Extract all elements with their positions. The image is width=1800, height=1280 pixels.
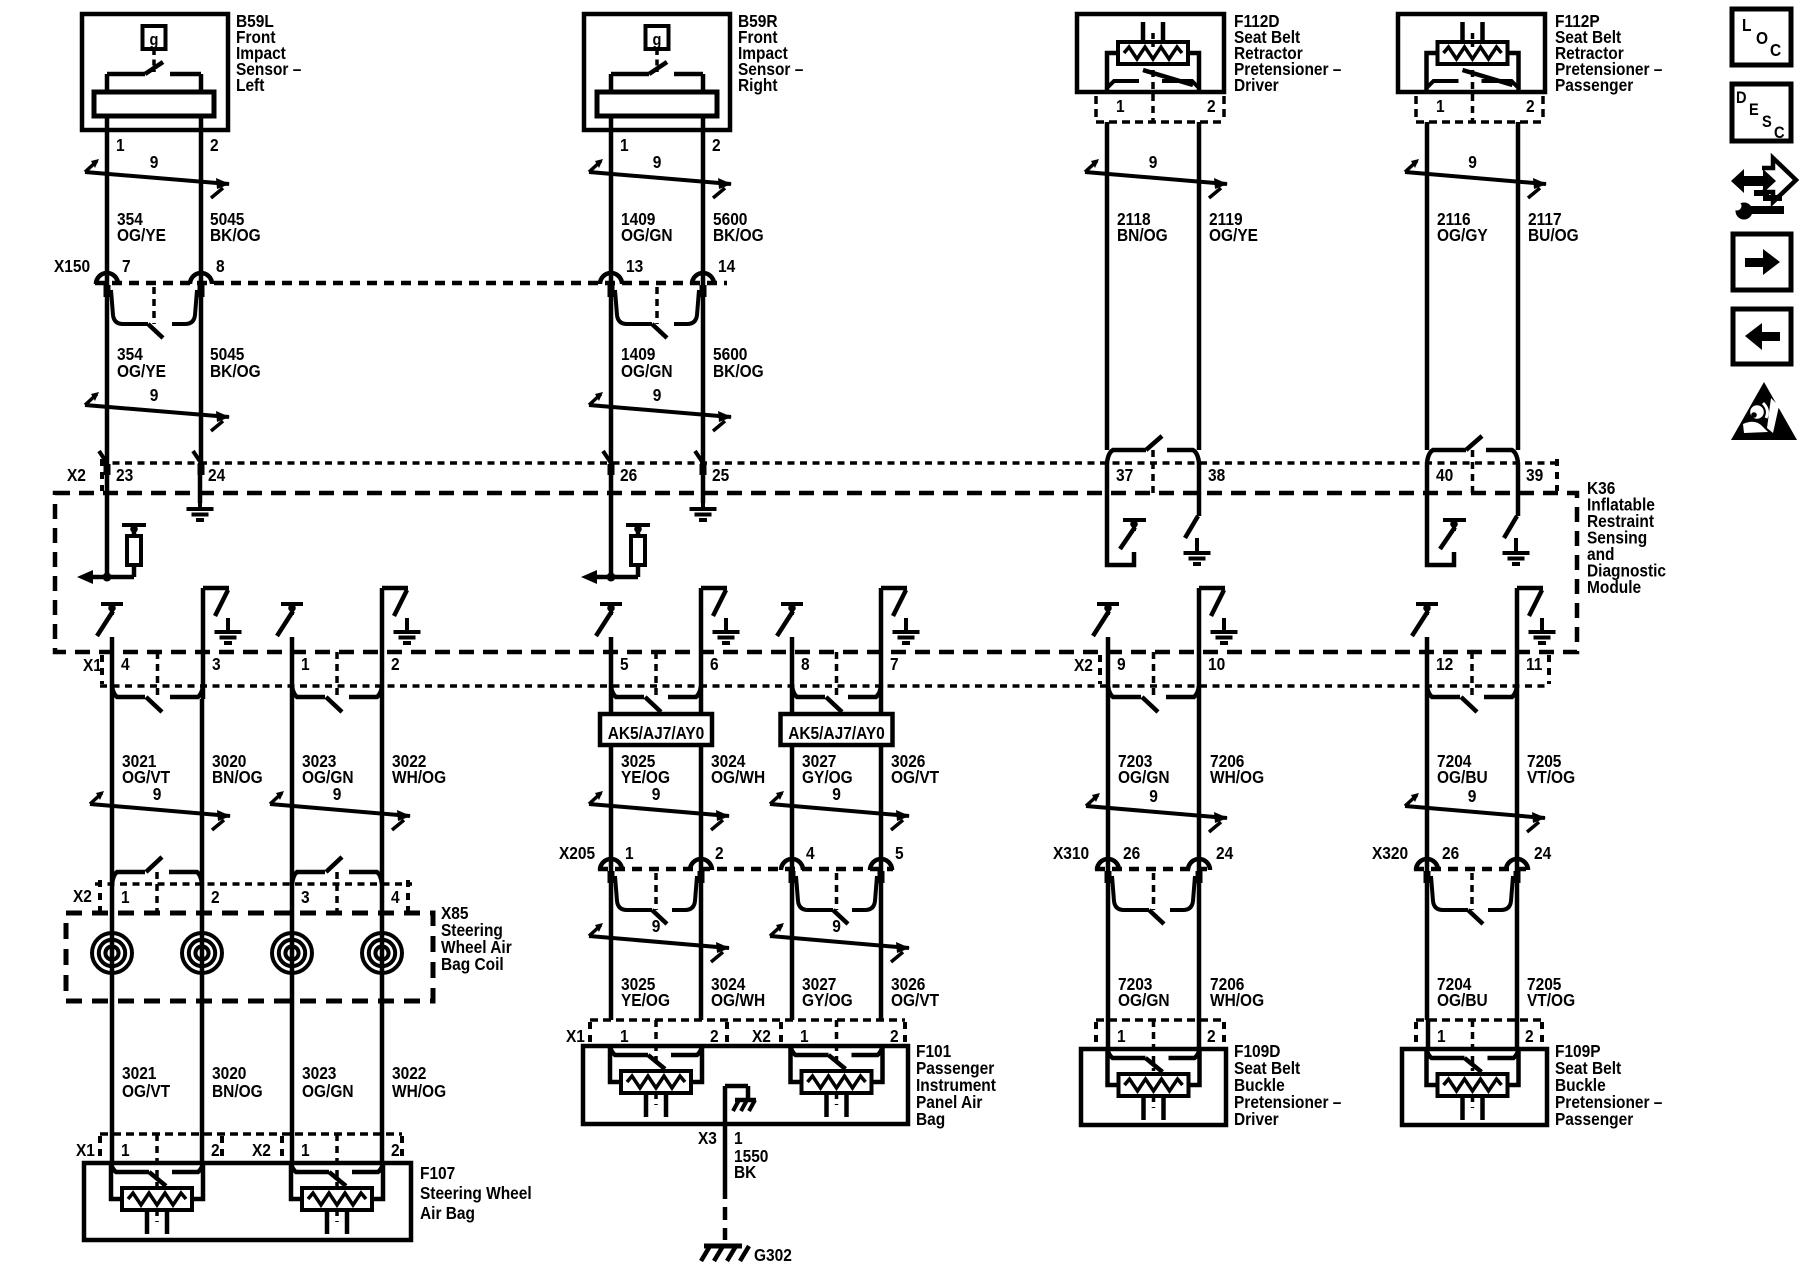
- svg-text:9: 9: [653, 385, 662, 405]
- module pin 6 label: [710, 654, 719, 674]
- X2 terminal stub x=107: [104, 464, 111, 475]
- svg-text:BN/OG: BN/OG: [212, 1081, 263, 1101]
- svg-text:24: 24: [208, 465, 226, 485]
- wire gauge 9 (3027/3026): [770, 784, 910, 830]
- X320 pin 26: [1416, 843, 1459, 883]
- wire label 2117 BU/OG: [1528, 209, 1579, 245]
- svg-text:8: 8: [801, 654, 810, 674]
- svg-text:OG/GN: OG/GN: [621, 225, 673, 245]
- svg-text:WH/OG: WH/OG: [1210, 990, 1264, 1010]
- svg-text:X2: X2: [1074, 655, 1093, 675]
- wire label 5045 BK/OG: [210, 209, 261, 245]
- air bag F107 box: [84, 1163, 411, 1240]
- svg-text:4: 4: [121, 654, 130, 674]
- F109P connector row: [1416, 1020, 1542, 1071]
- connector X150 pin 8: [190, 256, 225, 297]
- module pin 8 label: [801, 654, 810, 674]
- X205 pin 1: [600, 843, 634, 883]
- svg-text:BK/OG: BK/OG: [210, 361, 261, 381]
- svg-text:WH/OG: WH/OG: [1210, 767, 1264, 787]
- svg-text:BN/OG: BN/OG: [1117, 225, 1168, 245]
- svg-text:2: 2: [1525, 1026, 1534, 1046]
- svg-text:26: 26: [620, 465, 637, 485]
- svg-text:OG/WH: OG/WH: [711, 767, 765, 787]
- svg-text:37: 37: [1116, 465, 1133, 485]
- svg-text:AK5/AJ7/AY0: AK5/AJ7/AY0: [788, 723, 885, 743]
- wire label 3021 OG/VT (module out): [122, 751, 171, 787]
- module bottom terminals x=792: [792, 652, 881, 712]
- wire 354 OG/YE seg2: [105, 283, 110, 463]
- F112P output switch (pins 40/39): [1427, 436, 1518, 493]
- wire label 7205 VT/OG (module out): [1527, 751, 1575, 787]
- icon DESC: [1732, 84, 1791, 142]
- svg-text:1: 1: [301, 1140, 310, 1160]
- K36 firing circuit x=1427: [1412, 588, 1556, 652]
- wire 2119 OG/YE: [1197, 122, 1202, 450]
- wire 1409 OG/GN seg2: [609, 283, 614, 463]
- K36 ground return (pin 39): [1503, 463, 1530, 564]
- wire label 7204 OG/BU (at F109): [1437, 974, 1488, 1010]
- svg-text:9: 9: [652, 916, 661, 936]
- svg-text:8: 8: [216, 256, 225, 276]
- F109D squib: [1108, 1049, 1200, 1120]
- svg-text:4: 4: [391, 887, 400, 907]
- X310 terminals: [1112, 873, 1195, 924]
- F112P squib: [1427, 22, 1519, 92]
- X2 terminal stub x=703: [700, 464, 707, 475]
- svg-text:12: 12: [1436, 654, 1453, 674]
- wire gauge 9 (B59R pair): [589, 152, 732, 198]
- K36 sense resistor + arrow (pin 26): [581, 463, 650, 584]
- module bottom terminals x=1108: [1108, 652, 1199, 712]
- X2 pin 38 label: [1208, 465, 1225, 485]
- connector X2 label (top): [67, 459, 1557, 491]
- F101 squib 1: [610, 1046, 702, 1117]
- svg-text:GY/OG: GY/OG: [802, 990, 853, 1010]
- wire gauge 9 (3027/3026 lower): [770, 916, 910, 962]
- module pin 11 label: [1526, 654, 1542, 674]
- svg-text:BK/OG: BK/OG: [713, 361, 764, 381]
- air bag coil 2: [182, 884, 222, 1134]
- K36 sense resistor + arrow (pin 23): [77, 463, 146, 584]
- seat belt retractor pretensioner F112D: [1077, 14, 1224, 92]
- wire label 3027 GY/OG (at F101): [802, 974, 853, 1010]
- wire label 7203 OG/GN (at F109): [1118, 974, 1170, 1010]
- X2 pin 40 label: [1436, 465, 1453, 485]
- connector X2 (coil) label: [73, 880, 408, 911]
- svg-text:GY/OG: GY/OG: [802, 767, 853, 787]
- connector X150 pin 13: [600, 256, 643, 297]
- wire label 1409 OG/GN: [621, 209, 673, 245]
- svg-text:OG/YE: OG/YE: [117, 361, 166, 381]
- svg-text:1: 1: [116, 135, 125, 155]
- svg-text:Left: Left: [236, 75, 265, 95]
- wire 3022 WH/OG seg1: [380, 699, 385, 884]
- wire 3027 GY/OG seg1: [790, 699, 795, 869]
- wire 1550 BK dashed segment: [723, 1186, 728, 1240]
- X150 terminals right pair: [615, 287, 699, 338]
- K36 firing circuit x=792: [777, 588, 920, 652]
- svg-text:24: 24: [1534, 843, 1552, 863]
- wire 7204 OG/BU seg1: [1425, 699, 1430, 869]
- svg-text:X205: X205: [559, 843, 595, 863]
- svg-text:1: 1: [1437, 1026, 1446, 1046]
- svg-text:2: 2: [211, 1140, 220, 1160]
- K36 firing circuit x=112: [97, 588, 242, 652]
- wire 7205 VT/OG seg1: [1515, 699, 1520, 869]
- X205 pin 2: [690, 843, 724, 883]
- wire 2118 BN/OG: [1105, 122, 1110, 450]
- svg-text:3: 3: [301, 887, 310, 907]
- svg-text:9: 9: [653, 152, 662, 172]
- svg-text:OG/GN: OG/GN: [302, 767, 354, 787]
- svg-text:14: 14: [718, 256, 736, 276]
- F101 internal ground: [725, 1086, 756, 1124]
- svg-text:BK/OG: BK/OG: [210, 225, 261, 245]
- wire 1550 BK: [725, 1124, 768, 1186]
- X205 pin 5: [870, 843, 904, 883]
- svg-text:5: 5: [895, 843, 904, 863]
- svg-text:9: 9: [150, 385, 159, 405]
- svg-text:9: 9: [153, 784, 162, 804]
- wire label 3022 WH/OG (module out): [392, 751, 446, 787]
- F112D squib: [1107, 22, 1199, 92]
- X2 coil pin 4: [391, 887, 400, 907]
- B59L internal g-switch: [94, 26, 214, 130]
- F112D label: [1234, 11, 1341, 95]
- svg-text:6: 6: [710, 654, 719, 674]
- X2 coil terminals pair 2: [292, 857, 382, 911]
- seat belt retractor pretensioner F112P: [1398, 14, 1545, 92]
- wire label 3023 OG/GN (module out): [302, 751, 354, 787]
- F112D output switch (pins 37/38): [1107, 436, 1199, 493]
- K36 ground (pin 24): [187, 463, 214, 520]
- svg-text:2: 2: [890, 1026, 899, 1046]
- F107 label: [420, 1163, 532, 1223]
- svg-text:38: 38: [1208, 465, 1225, 485]
- wire gauge 9 (B59L pair): [85, 152, 230, 198]
- svg-text:2: 2: [715, 843, 724, 863]
- K36 firing circuit x=611: [596, 588, 740, 652]
- wire gauge 9 (3025/3024 lower): [589, 916, 730, 962]
- icon arrow left: [1733, 309, 1791, 364]
- connector X150 pin 14: [692, 256, 736, 297]
- module pin 3 label: [212, 654, 221, 674]
- wire 3024 OG/WH seg2: [699, 869, 704, 1020]
- svg-text:O: O: [1756, 28, 1768, 48]
- svg-text:WH/OG: WH/OG: [392, 1081, 446, 1101]
- svg-text:VT/OG: VT/OG: [1527, 990, 1575, 1010]
- X2 coil pin 2: [211, 887, 220, 907]
- svg-text:9: 9: [832, 784, 841, 804]
- air bag coil 3: [272, 884, 312, 1134]
- coil module X85 box: [66, 913, 433, 1001]
- wire label 3025 YE/OG (module out): [621, 751, 670, 787]
- svg-text:X2: X2: [752, 1026, 771, 1046]
- icon adjust (arrows + wrench): [1731, 158, 1796, 220]
- svg-text:7: 7: [122, 256, 131, 276]
- wire gauge 9 (B59R pair lower): [589, 385, 732, 431]
- svg-text:Passenger: Passenger: [1555, 75, 1634, 95]
- B59R pin labels: [620, 135, 721, 155]
- F107 wires into box: [112, 1134, 382, 1163]
- wire label 7206 WH/OG (module out): [1210, 751, 1264, 787]
- wire 1409 OG/GN seg1: [609, 130, 614, 283]
- module pin 12 label: [1436, 654, 1453, 674]
- F107 connector row: [76, 1134, 402, 1186]
- svg-text:YE/OG: YE/OG: [621, 767, 670, 787]
- connector X2 line (module top): [100, 461, 1560, 465]
- wire label 3021 OG/VT (coil out): [122, 1063, 171, 1101]
- svg-text:9: 9: [1117, 654, 1126, 674]
- wire 3027 GY/OG seg2: [790, 869, 795, 1020]
- air bag coil 1: [92, 884, 132, 1134]
- X150 terminals left pair: [111, 287, 197, 338]
- svg-text:5: 5: [620, 654, 629, 674]
- K36 firing circuit x=1108: [1093, 588, 1238, 652]
- module bottom terminals x=292: [292, 652, 382, 712]
- module bottom terminals x=611: [611, 652, 701, 712]
- connector X205 label: [559, 843, 595, 863]
- F112P label: [1555, 11, 1662, 95]
- wire label 5600 BK/OG: [713, 209, 764, 245]
- svg-text:1: 1: [620, 135, 629, 155]
- svg-text:23: 23: [116, 465, 133, 485]
- svg-text:Right: Right: [738, 75, 778, 95]
- K36 ground return (pin 38): [1184, 463, 1211, 564]
- svg-text:9: 9: [150, 152, 159, 172]
- svg-text:9: 9: [333, 784, 342, 804]
- svg-text:1: 1: [121, 1140, 130, 1160]
- icon LOC: [1732, 9, 1791, 65]
- wire label 7204 OG/BU (module out): [1437, 751, 1488, 787]
- svg-text:C: C: [1770, 40, 1781, 60]
- connector X320 label: [1372, 843, 1408, 863]
- svg-text:1: 1: [625, 843, 634, 863]
- K36 ground (pin 25): [690, 463, 717, 520]
- F112D connector pins 1-2: [1096, 70, 1224, 122]
- wire label 7205 VT/OG (at F109): [1527, 974, 1575, 1010]
- svg-text:S: S: [1762, 113, 1772, 131]
- connector X1 label: [83, 655, 102, 684]
- X320 pin 24: [1506, 843, 1552, 883]
- X320 terminals: [1431, 873, 1513, 924]
- wire label 2118 BN/OG: [1117, 209, 1168, 245]
- F109P wires into box: [1428, 1020, 1517, 1049]
- connector X150 pin 7: [96, 256, 131, 297]
- wire gauge 9 (F112P pair): [1405, 152, 1547, 198]
- X2 pin 37 label: [1116, 465, 1133, 485]
- svg-text:OG/VT: OG/VT: [122, 1081, 171, 1101]
- svg-text:9: 9: [1149, 152, 1158, 172]
- wire 7206 WH/OG seg2: [1197, 869, 1202, 1020]
- svg-text:G302: G302: [754, 1245, 792, 1265]
- svg-text:40: 40: [1436, 465, 1453, 485]
- X2 terminal stub x=611: [608, 464, 615, 475]
- wire label 3022 WH/OG (coil out): [392, 1063, 446, 1101]
- svg-text:C: C: [1774, 124, 1785, 142]
- svg-text:X2: X2: [73, 886, 92, 906]
- svg-text:3: 3: [212, 654, 221, 674]
- module K36 label: [1587, 478, 1666, 597]
- svg-text:2: 2: [210, 135, 219, 155]
- svg-text:1: 1: [121, 887, 130, 907]
- wire gauge 9 (3023/3022): [270, 784, 411, 830]
- svg-text:2: 2: [211, 887, 220, 907]
- wire gauge 9 (3025/3024): [589, 784, 730, 830]
- svg-text:1: 1: [1117, 1026, 1126, 1046]
- X2 coil pin 3: [301, 887, 310, 907]
- F101 connector row: [566, 1020, 905, 1068]
- option code box AK5/AJ7/AY0 x=656: [600, 714, 712, 745]
- front impact sensor B59L: [82, 14, 228, 130]
- seat belt buckle pretensioner F109D: [1081, 1049, 1226, 1125]
- svg-text:9: 9: [652, 784, 661, 804]
- ground G302: [701, 1245, 792, 1265]
- svg-text:OG/GN: OG/GN: [621, 361, 673, 381]
- wire label 3027 GY/OG (module out): [802, 751, 853, 787]
- K36 squib driver (pin 40): [1427, 463, 1466, 565]
- wire gauge 9 (B59L pair lower): [85, 385, 230, 431]
- X205 terminals pair 2: [796, 873, 877, 924]
- connector X150 label: [54, 256, 90, 276]
- wire 5045 BK/OG seg2: [199, 283, 204, 463]
- X2 coil pin 1: [121, 887, 130, 907]
- svg-text:2: 2: [391, 654, 400, 674]
- svg-text:X1: X1: [83, 655, 102, 675]
- svg-text:1: 1: [620, 1026, 629, 1046]
- svg-text:OG/BU: OG/BU: [1437, 990, 1488, 1010]
- svg-text:Driver: Driver: [1234, 75, 1279, 95]
- connector X1 line (module bottom): [100, 684, 1549, 688]
- wire 2116 OG/GY: [1425, 122, 1430, 450]
- wire gauge 9 (7204/7205): [1405, 786, 1546, 832]
- svg-text:9: 9: [832, 916, 841, 936]
- svg-text:OG/GN: OG/GN: [1118, 767, 1170, 787]
- module pin 5 label: [620, 654, 629, 674]
- F109D connector row: [1096, 1020, 1224, 1071]
- svg-text:YE/OG: YE/OG: [621, 990, 670, 1010]
- B59L label: [236, 11, 301, 95]
- svg-text:2: 2: [1207, 1026, 1216, 1046]
- wire label 3025 YE/OG (at F101): [621, 974, 670, 1010]
- svg-text:2: 2: [391, 1140, 400, 1160]
- svg-text:1: 1: [1436, 96, 1445, 116]
- wire 354 OG/YE seg1: [105, 130, 110, 283]
- svg-text:4: 4: [806, 843, 815, 863]
- svg-text:AK5/AJ7/AY0: AK5/AJ7/AY0: [608, 723, 705, 743]
- svg-text:g: g: [150, 31, 159, 49]
- connector X150 line: [95, 281, 727, 286]
- option code box AK5/AJ7/AY0 x=836.5: [781, 714, 893, 745]
- module pin 7 label: [890, 654, 899, 674]
- svg-text:X310: X310: [1053, 843, 1089, 863]
- wire 2117 BU/OG: [1516, 122, 1521, 450]
- svg-text:OG/VT: OG/VT: [891, 990, 940, 1010]
- K36 squib driver (pin 37): [1107, 463, 1146, 565]
- svg-text:26: 26: [1442, 843, 1459, 863]
- wire 7206 WH/OG seg1: [1197, 699, 1202, 869]
- svg-text:2: 2: [710, 1026, 719, 1046]
- svg-text:24: 24: [1216, 843, 1234, 863]
- wire 3023 OG/GN seg1: [290, 699, 295, 884]
- svg-text:39: 39: [1526, 465, 1543, 485]
- svg-text:WH/OG: WH/OG: [392, 767, 446, 787]
- svg-text:Passenger: Passenger: [1555, 1109, 1634, 1129]
- X85 label: [441, 903, 512, 974]
- svg-text:13: 13: [626, 256, 643, 276]
- svg-text:VT/OG: VT/OG: [1527, 767, 1575, 787]
- F107 squib 2: [291, 1163, 383, 1234]
- wire 5600 BK/OG seg2: [701, 283, 706, 463]
- connector X320 line: [1414, 867, 1530, 872]
- F109P squib: [1427, 1049, 1519, 1120]
- svg-text:Bag Coil: Bag Coil: [441, 954, 504, 974]
- svg-text:2: 2: [1526, 96, 1535, 116]
- svg-text:D: D: [1736, 89, 1747, 107]
- wire label 354 OG/YE (lower): [117, 344, 166, 381]
- wire label 3024 OG/WH (module out): [711, 751, 765, 787]
- svg-text:X3: X3: [698, 1128, 717, 1148]
- B59R internal g-switch: [597, 26, 717, 130]
- wire 3025 YE/OG seg1: [609, 699, 614, 869]
- air bag F101 box: [583, 1046, 908, 1124]
- wire 3025 YE/OG seg2: [609, 869, 614, 1020]
- wire label 354 OG/YE: [117, 209, 166, 245]
- F112P connector pins 1-2: [1416, 70, 1543, 122]
- svg-text:10: 10: [1208, 654, 1225, 674]
- X310 pin 26: [1097, 843, 1140, 883]
- X2 pin 39 label: [1526, 465, 1543, 485]
- F109P label: [1555, 1041, 1662, 1129]
- svg-text:25: 25: [712, 465, 729, 485]
- module K36 box: [55, 493, 1577, 652]
- connector X310 line: [1095, 867, 1212, 872]
- svg-text:F107: F107: [420, 1163, 455, 1183]
- wire label 3024 OG/WH (at F101): [711, 974, 765, 1010]
- seat belt buckle pretensioner F109P: [1402, 1049, 1547, 1125]
- wire 7204 OG/BU seg2: [1425, 869, 1430, 1020]
- module bottom terminals x=1427: [1427, 652, 1517, 712]
- wire label 3020 BN/OG (coil out): [212, 1063, 263, 1101]
- wire 3024 OG/WH seg1: [699, 699, 704, 869]
- wire label 2119 OG/YE: [1209, 209, 1258, 245]
- svg-text:1: 1: [800, 1026, 809, 1046]
- svg-text:X150: X150: [54, 256, 90, 276]
- svg-text:7: 7: [890, 654, 899, 674]
- svg-text:Driver: Driver: [1234, 1109, 1279, 1129]
- wire 5045 BK/OG seg1: [199, 130, 204, 283]
- wire label 3020 BN/OG (module out): [212, 751, 263, 787]
- front impact sensor B59R: [584, 14, 730, 130]
- F101 label: [916, 1041, 996, 1129]
- connector X2 label (module bottom right): [1074, 655, 1549, 684]
- wire label 5045 BK/OG (lower): [210, 344, 261, 381]
- wire label 3026 OG/VT (at F101): [891, 974, 940, 1010]
- wire 5600 BK/OG seg1: [701, 130, 706, 283]
- svg-text:1: 1: [301, 654, 310, 674]
- wire label 3026 OG/VT (module out): [891, 751, 940, 787]
- wire label 1409 OG/GN (lower): [621, 344, 673, 381]
- svg-text:1: 1: [1116, 96, 1125, 116]
- wire gauge 9 (3021/3020): [90, 784, 231, 830]
- svg-text:OG/WH: OG/WH: [711, 990, 765, 1010]
- svg-text:11: 11: [1526, 654, 1542, 674]
- svg-text:L: L: [1742, 15, 1751, 35]
- wire 3021 OG/VT seg1: [110, 699, 115, 884]
- svg-text:X1: X1: [566, 1026, 585, 1046]
- wire 7203 OG/GN seg1: [1106, 699, 1111, 869]
